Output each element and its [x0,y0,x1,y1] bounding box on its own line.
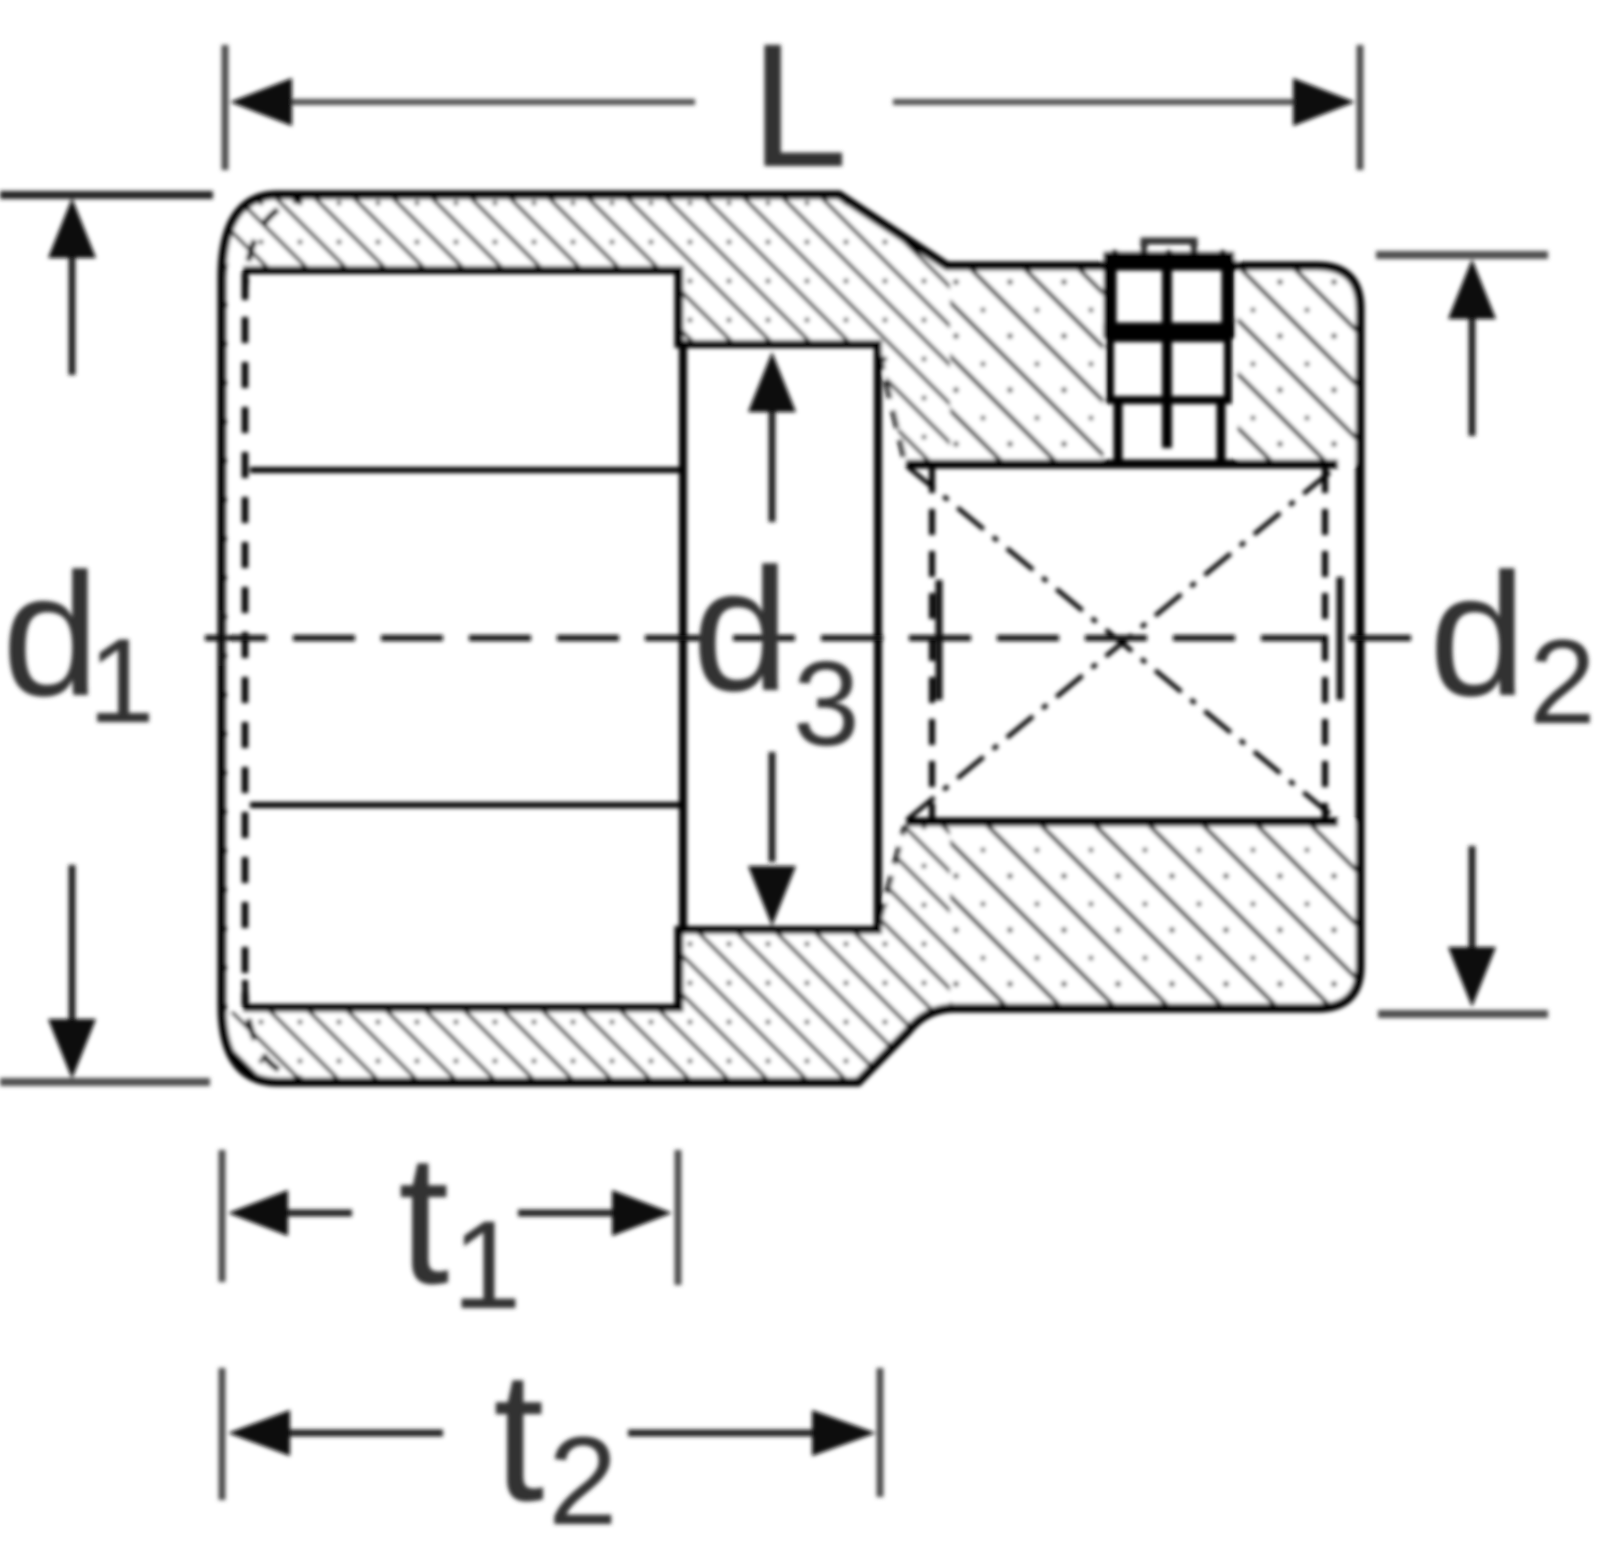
svg-text:d: d [692,533,789,728]
svg-text:2: 2 [548,1412,618,1541]
svg-text:t: t [398,1117,449,1323]
svg-text:1: 1 [452,1196,522,1335]
svg-text:d: d [2,538,99,733]
svg-text:d: d [1429,538,1526,733]
svg-text:t: t [493,1334,544,1540]
svg-text:L: L [750,8,848,204]
svg-text:1: 1 [88,614,155,748]
svg-text:2: 2 [1529,615,1596,749]
svg-text:3: 3 [793,637,860,771]
